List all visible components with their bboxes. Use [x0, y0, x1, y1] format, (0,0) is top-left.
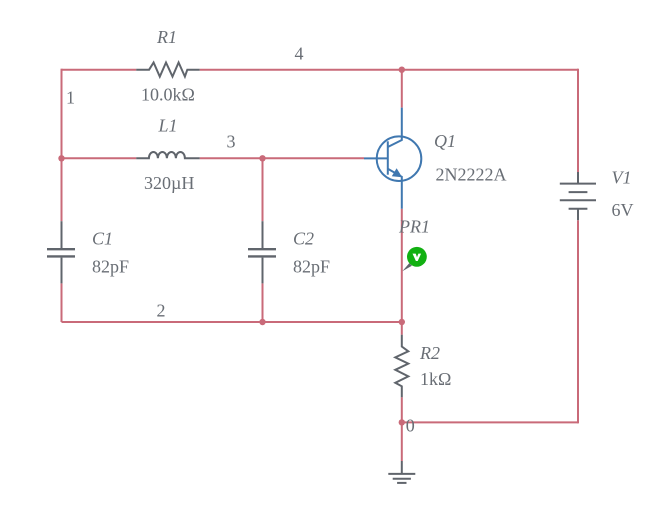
- svg-text:1kΩ: 1kΩ: [420, 369, 451, 389]
- wire node 2 down to R2: [401, 322, 403, 335]
- wire V1 bottom to node 0 row: [577, 220, 579, 423]
- svg-text:2N2222A: 2N2222A: [436, 165, 507, 185]
- wire node 4 down to Q1 collector: [401, 70, 403, 108]
- svg-text:320µH: 320µH: [144, 173, 194, 193]
- inductor L1: [136, 152, 200, 158]
- svg-text:C2: C2: [293, 228, 314, 248]
- svg-text:1: 1: [66, 88, 75, 108]
- svg-text:C1: C1: [92, 228, 113, 248]
- resistor R1: [136, 63, 200, 77]
- wire bottom node 2 horizontal: [62, 321, 402, 323]
- wire Q1 emitter down to node 2: [401, 209, 403, 322]
- wire left vertical to C1 top: [61, 158, 63, 221]
- node dot 3 (C2 top): [259, 155, 265, 161]
- svg-text:6V: 6V: [612, 200, 634, 220]
- wire left vertical upper (node 1): [61, 69, 63, 159]
- wire C2 bottom to node 2: [262, 283, 264, 322]
- node dot 1 (left, L1 row): [58, 155, 64, 161]
- wire top right horizontal (R1 to V1, node 4): [200, 69, 578, 71]
- wire L1 row left (node 1 to L1): [62, 157, 137, 159]
- svg-text:R1: R1: [156, 27, 177, 47]
- capacitor C2: [248, 221, 276, 283]
- node dot 2 right (emitter/R2): [399, 319, 405, 325]
- probe PR1 v glyph: [413, 254, 422, 261]
- wire top left horizontal (node 1 to R1): [62, 69, 137, 71]
- capacitor C1: [47, 221, 75, 283]
- svg-text:82pF: 82pF: [92, 256, 129, 276]
- wire node 0 down to ground: [401, 422, 403, 461]
- svg-text:2: 2: [157, 300, 166, 320]
- svg-text:PR1: PR1: [398, 216, 430, 236]
- resistor R2: [395, 335, 408, 397]
- probe PR1 leader needle: [402, 263, 412, 271]
- wire right vertical upper (node 4 to V1): [577, 69, 579, 172]
- node dot 0 (R2/ground/V1): [399, 419, 405, 425]
- svg-text:4: 4: [295, 44, 304, 64]
- node dot 4 (top, collector): [399, 67, 405, 73]
- svg-text:L1: L1: [158, 116, 178, 136]
- svg-text:10.0kΩ: 10.0kΩ: [141, 85, 195, 105]
- svg-text:R2: R2: [419, 343, 440, 363]
- transistor Q1: [364, 108, 421, 209]
- wire C2 branch upper: [262, 158, 264, 221]
- svg-text:V1: V1: [612, 168, 632, 188]
- probe PR1 green circle: [407, 247, 427, 267]
- wire node 0 horizontal to V1 bottom: [402, 421, 578, 423]
- svg-text:3: 3: [227, 132, 236, 152]
- battery V1: [560, 172, 596, 220]
- svg-text:Q1: Q1: [434, 131, 456, 151]
- wire R2 to node 0: [401, 397, 403, 422]
- wire L1 to node 3 to Q1 base: [200, 157, 364, 159]
- wire C1 bottom to node 2: [61, 283, 63, 322]
- node dot 2 left (C2 bottom): [259, 319, 265, 325]
- ground: [388, 461, 415, 483]
- svg-text:82pF: 82pF: [293, 256, 330, 276]
- svg-text:0: 0: [406, 415, 415, 435]
